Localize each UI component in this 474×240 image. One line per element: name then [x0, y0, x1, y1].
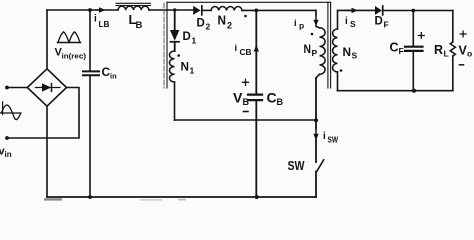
svg-text:N: N: [304, 44, 312, 56]
top rail left segment: [47, 9, 118, 11]
wire top rail corner into NP: [315, 10, 317, 14]
current arrow i_S: [346, 8, 358, 13]
svg-text:2: 2: [206, 22, 211, 32]
node D1 tap: [173, 8, 176, 11]
wire N1 bottom to mid rail: [174, 82, 176, 120]
top rail L_B to D2: [149, 9, 193, 11]
node C_F tap: [411, 9, 415, 13]
capacitor C_B branch wire (bottom): [255, 100, 257, 197]
resistor R_L: [450, 11, 455, 91]
svg-text:D: D: [375, 16, 383, 28]
svg-text:CB: CB: [240, 47, 252, 57]
capacitor C_in branch wire (bottom): [89, 75, 91, 197]
svg-text:B: B: [277, 97, 284, 107]
L_B label: [129, 12, 143, 31]
N_P label: [304, 44, 318, 58]
V_o label: [459, 44, 473, 59]
winding N2: [211, 6, 242, 10]
capacitor C_B branch wire (top): [255, 10, 257, 93]
D1 label: [183, 31, 197, 46]
svg-text:o: o: [467, 49, 472, 59]
capacitor C_B: [248, 95, 262, 101]
node C_in bottom: [88, 195, 92, 199]
svg-text:in: in: [110, 72, 117, 81]
wire to switch top contact: [315, 140, 317, 162]
svg-text:i: i: [294, 18, 297, 29]
node C_in tap: [88, 8, 92, 12]
minus sign V_B: [244, 111, 249, 113]
current arrow i_P: [313, 14, 318, 26]
winding N_P primary: [316, 26, 325, 79]
node SW junction: [314, 118, 318, 122]
wire SW junction down: [315, 120, 317, 128]
diode D1: [170, 30, 179, 51]
svg-text:L: L: [444, 49, 449, 59]
bridge internal diode: [36, 83, 61, 91]
i_CB label: [235, 43, 252, 57]
svg-text:LB: LB: [99, 19, 110, 29]
C_F label: [390, 41, 404, 57]
svg-text:V: V: [233, 90, 243, 106]
wire N2 to NP corner: [242, 9, 316, 11]
i_P label: [294, 18, 304, 31]
N1 phase dot: [177, 54, 180, 57]
svg-text:i: i: [235, 43, 238, 54]
svg-text:SW: SW: [288, 158, 306, 173]
V_in(rec) waveform icon (rectified humps): [58, 32, 81, 43]
minus sign V_o: [460, 64, 464, 66]
V_B label: [233, 90, 250, 108]
svg-text:R: R: [434, 43, 443, 57]
V_in(rec) label: [55, 47, 87, 61]
transformer core (left leg): [166, 2, 168, 88]
D_F label: [375, 16, 389, 30]
svg-text:F: F: [384, 20, 389, 30]
svg-text:B: B: [243, 97, 250, 107]
v_in label: [0, 146, 12, 160]
wire v_in bottom terminal to bridge right: [7, 88, 79, 139]
svg-text:1: 1: [192, 36, 197, 46]
wire bridge top to rail: [46, 10, 48, 69]
wire N_P bottom to junction: [315, 78, 317, 120]
wire D2 to N2: [202, 9, 211, 11]
capacitor C_in: [83, 71, 99, 75]
capacitor C_F branch wire (top): [412, 11, 414, 47]
N_S label: [343, 45, 358, 61]
svg-text:S: S: [350, 19, 356, 29]
inductor L_B core bars: [116, 3, 151, 5]
svg-text:2: 2: [227, 21, 232, 31]
svg-text:C: C: [267, 90, 277, 106]
svg-text:B: B: [136, 20, 143, 31]
D2 label: [197, 18, 211, 32]
winding N_S secondary: [333, 29, 338, 72]
N2 label: [218, 13, 233, 31]
inductor L_B: [118, 6, 149, 10]
svg-text:i: i: [323, 131, 326, 142]
svg-text:N: N: [181, 60, 190, 74]
capacitor C_F branch wire (bottom): [412, 51, 414, 91]
wire switch bottom to rail: [315, 172, 317, 197]
i_LB label: [94, 14, 110, 30]
svg-text:P: P: [312, 48, 318, 58]
wire N_S bottom to output bottom: [337, 72, 339, 91]
transformer core (left dashed leg): [163, 3, 165, 88]
i_S label: [345, 16, 356, 29]
node C_B bottom: [255, 195, 259, 199]
winding N1: [170, 51, 175, 82]
wire v_in top terminal to bridge: [7, 87, 28, 89]
wire bridge bottom to bottom rail: [46, 106, 48, 197]
diode D2: [193, 6, 202, 15]
svg-text:F: F: [399, 46, 404, 56]
plus sign V_B: [243, 79, 249, 85]
N2 phase dot: [244, 15, 247, 18]
svg-text:1: 1: [190, 66, 195, 76]
svg-text:i: i: [345, 16, 348, 27]
svg-text:N: N: [218, 13, 227, 28]
N_S phase dot: [340, 69, 343, 72]
transformer core (top bar): [167, 1, 331, 3]
AC source v_in sine symbol: [0, 102, 21, 120]
bottom rail: [47, 196, 316, 198]
svg-text:C: C: [390, 41, 399, 55]
diode D1 branch wire: [174, 10, 176, 30]
svg-text:S: S: [352, 51, 358, 61]
svg-text:i: i: [94, 14, 97, 25]
R_L label: [434, 43, 449, 59]
output bottom rail: [338, 90, 453, 92]
SW label: [288, 158, 306, 173]
output top rail: [383, 10, 453, 12]
wire N_S top to output rail: [338, 10, 376, 29]
N_P phase dot: [311, 33, 314, 36]
svg-text:SW: SW: [328, 135, 339, 145]
scan smudge marks: [44, 198, 186, 200]
switch SW blade: [317, 160, 324, 172]
svg-text:in: in: [5, 150, 12, 159]
plus sign C_F: [418, 33, 424, 39]
svg-text:D: D: [197, 18, 205, 30]
node C_F bottom: [412, 89, 416, 93]
svg-text:D: D: [183, 31, 191, 43]
terminal node (top): [5, 86, 9, 90]
svg-text:in(rec): in(rec): [62, 52, 87, 61]
plus sign V_o: [460, 31, 466, 37]
N1 label: [181, 60, 195, 76]
C_B label: [267, 90, 284, 108]
current arrow i_SW: [313, 128, 318, 141]
mid wire N1 to NP junction: [175, 119, 317, 121]
svg-text:p: p: [299, 21, 304, 31]
C_in label: [102, 65, 118, 81]
current arrow i_LB: [96, 7, 106, 12]
i_SW label: [323, 131, 339, 145]
svg-text:N: N: [343, 45, 352, 59]
transformer core (right legs): [328, 2, 331, 88]
node C_B tap: [254, 9, 258, 13]
terminal node (bottom): [5, 136, 9, 140]
diode D_F: [375, 6, 383, 15]
capacitor C_in branch wire (top): [89, 10, 91, 71]
capacitor C_F: [405, 47, 423, 51]
current arrow i_CB: [254, 45, 259, 57]
bridge rectifier diamond: [27, 69, 66, 106]
